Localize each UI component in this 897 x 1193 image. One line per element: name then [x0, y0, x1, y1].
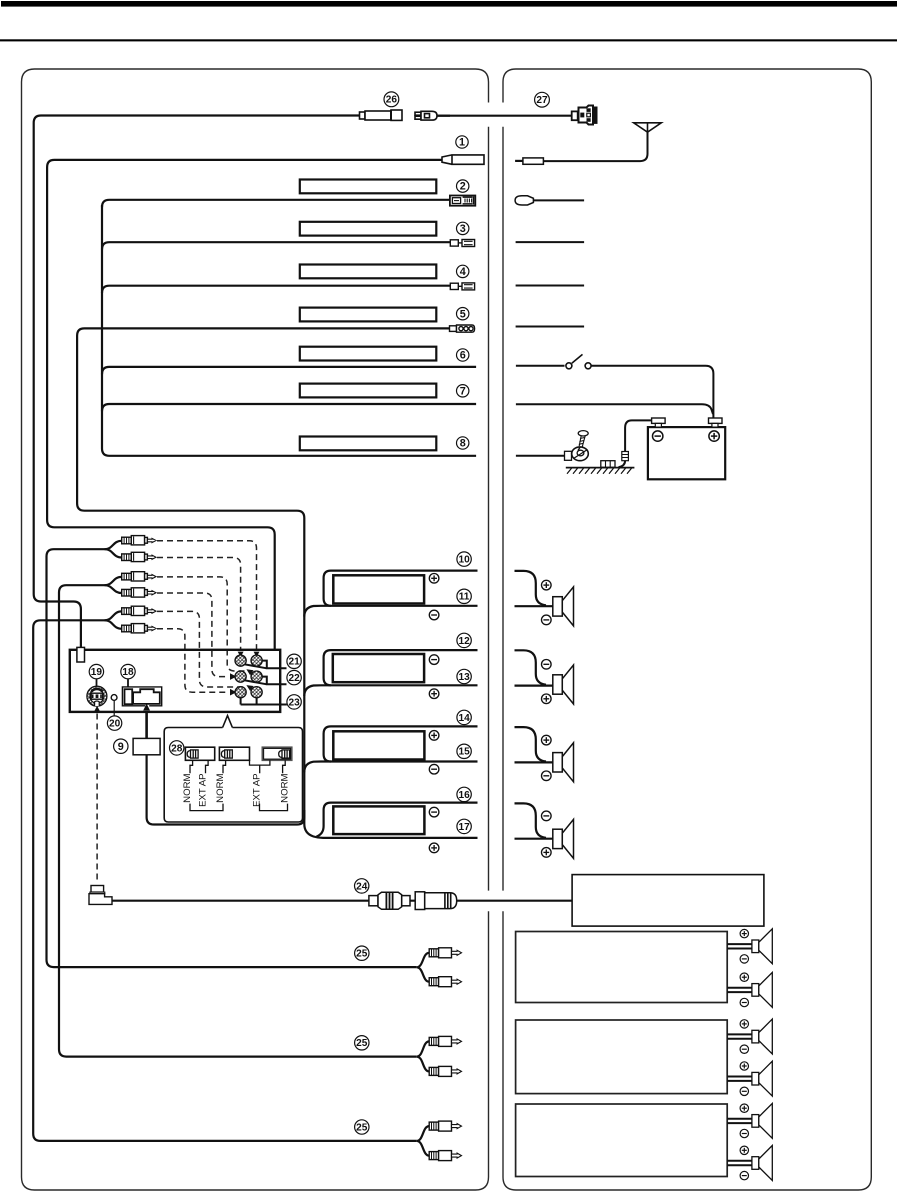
svg-text:23: 23	[288, 697, 300, 708]
amp speaker 5	[727, 1103, 772, 1138]
svg-text:17: 17	[458, 822, 470, 833]
label 21	[287, 654, 301, 668]
wire mate of 3	[516, 241, 585, 243]
unit (head unit rear) box	[70, 650, 280, 712]
wire RCA pair 1 to cable 25a	[47, 541, 417, 967]
svg-text:16: 16	[458, 790, 470, 801]
ground hatching	[567, 468, 632, 474]
right speaker 3 leads	[515, 727, 553, 762]
wire 7	[102, 404, 476, 411]
ignition switch wire 6 side	[516, 366, 714, 418]
arrow into jack R1	[254, 652, 260, 657]
circled label 2	[457, 180, 469, 192]
amp box 3	[516, 1104, 728, 1177]
switch knob B	[221, 750, 232, 758]
dashed route plug4 to jack L2	[157, 593, 229, 677]
svg-text:15: 15	[458, 747, 470, 758]
label box 10/11	[333, 575, 424, 603]
svg-text:25: 25	[356, 1038, 368, 1049]
header rule line	[0, 39, 897, 41]
label 11	[457, 589, 471, 603]
right speaker 2 leads	[515, 650, 553, 685]
box 24 target (CD changer)	[572, 875, 764, 927]
circled label 1	[456, 136, 468, 148]
battery plus symbol	[709, 431, 719, 441]
right speaker 2 symbol	[553, 665, 574, 704]
speaker pair 2 top wire (12)	[324, 650, 478, 685]
svg-text:NORM: NORM	[215, 773, 226, 802]
bracket jacks pair2 to label 22	[245, 677, 287, 685]
RCA plug 25c-top	[429, 1121, 461, 1131]
wire 8 to ground	[516, 455, 565, 457]
label 15	[457, 744, 471, 758]
speaker pair 4 bottom wire (17) from trunk U-turn	[323, 837, 478, 839]
dashed route plug1 to jack R1	[157, 541, 257, 651]
svg-text:6: 6	[460, 350, 466, 362]
plus sign wire 10	[429, 574, 439, 584]
right panel frame	[503, 69, 871, 1190]
small hole 20	[111, 695, 117, 701]
right speaker 3 symbol	[553, 743, 574, 782]
callout chevron	[223, 716, 233, 728]
right speaker 4 leads	[515, 803, 553, 838]
ground terminal block	[601, 461, 615, 468]
leader NORM A	[190, 760, 193, 773]
jack L1	[235, 655, 246, 666]
battery minus symbol	[653, 431, 663, 441]
DIN connector 19	[87, 686, 107, 706]
label 19	[89, 664, 103, 678]
minus sign wire 12	[429, 655, 439, 665]
label 18	[121, 664, 135, 678]
circled label 7	[457, 385, 469, 397]
svg-text:3: 3	[460, 223, 466, 235]
label 28	[170, 741, 184, 755]
connector 27	[572, 106, 598, 125]
label 20	[107, 716, 121, 730]
unit antenna input box (target of wire 26)	[77, 647, 85, 662]
connector 4	[450, 283, 474, 290]
amp speaker 1	[727, 929, 772, 964]
svg-text:EXT AP: EXT AP	[252, 774, 263, 807]
amp speaker 6	[727, 1146, 772, 1181]
bottom bracket NORM A-B	[190, 804, 223, 811]
amp speaker 4	[727, 1061, 772, 1096]
wire 26 to 27 crossing	[437, 115, 572, 117]
svg-text:25: 25	[356, 1122, 368, 1133]
RCA plug 2	[122, 552, 156, 561]
antenna symbol	[634, 123, 662, 132]
wire 3	[102, 242, 450, 249]
wire from box 9 up into socket 18	[145, 711, 148, 738]
wire 5 (speaker harness lead)	[77, 328, 449, 838]
RCA plug 25a-bottom	[429, 977, 461, 987]
svg-text:12: 12	[458, 636, 470, 647]
switch position texts	[182, 773, 290, 806]
label box 8	[300, 437, 437, 451]
svg-text:2: 2	[460, 181, 466, 193]
arrow into jack L3	[230, 689, 237, 696]
label 24	[355, 879, 369, 893]
label 10	[457, 552, 471, 566]
label 25a	[355, 946, 369, 960]
wire 1 (antenna plug lead)	[47, 160, 442, 650]
dashed route plug3 to jack R2	[157, 577, 245, 671]
label 16	[457, 787, 471, 801]
arrow from 19 down to plug of cable 24 (dashed)	[96, 714, 98, 881]
label 9	[114, 739, 128, 753]
wire 8 (bundle trunk)	[102, 205, 476, 456]
ignition switch contacts	[566, 363, 572, 369]
wire mate of 2	[533, 199, 584, 201]
label box 16/17	[333, 806, 424, 834]
bracket jacks pair3 to label 23	[241, 698, 287, 705]
label box 5	[300, 308, 437, 322]
RCA plug 5	[122, 606, 156, 615]
plus sign wire 17	[429, 843, 439, 853]
switch knob A	[187, 750, 198, 758]
label 13	[457, 669, 471, 683]
bracket jacks pair1 to label 21	[245, 661, 287, 669]
svg-text:NORM: NORM	[279, 773, 290, 802]
wire RCA pair 3 to cable 25c	[33, 611, 417, 1141]
label box 12/13	[333, 654, 424, 682]
right speaker 4 symbol	[553, 819, 574, 858]
label box 6	[300, 347, 437, 361]
arrow into jack L2	[230, 673, 237, 680]
circled label 3	[457, 222, 469, 234]
battery plus terminal cap	[709, 418, 723, 423]
socket 18	[122, 687, 161, 706]
plus sign wire 13	[429, 689, 439, 699]
wire 2	[102, 200, 450, 207]
sleeve on minus wire	[622, 452, 629, 461]
dashed route plug6 to jack L3	[157, 629, 229, 692]
mounting screw	[578, 431, 588, 436]
label box 3	[300, 222, 437, 236]
wire 7 to battery	[516, 404, 713, 414]
leader EXT AP shared B/C	[250, 760, 270, 773]
wire 25b cable with Y-split	[417, 1041, 430, 1071]
amp box 2	[516, 1020, 728, 1094]
wire 24	[112, 900, 572, 902]
arrow into jack L1	[238, 652, 244, 657]
svg-text:28: 28	[171, 743, 183, 754]
wire from box 9 down and right to harness trunk	[147, 755, 305, 825]
RCA plug 1	[122, 536, 156, 545]
connector 2	[450, 196, 475, 206]
left panel frame	[22, 69, 489, 1190]
svg-text:4: 4	[460, 266, 466, 278]
antenna mast and lead to socket	[543, 132, 647, 161]
circled label 6	[457, 349, 469, 361]
jack R3	[251, 687, 262, 698]
speaker pair 4 top wire (16)	[317, 803, 478, 837]
wire 6	[102, 367, 476, 374]
ring terminal	[572, 447, 589, 461]
leader NORM C	[283, 760, 286, 773]
svg-text:9: 9	[118, 741, 124, 753]
circled label 8	[457, 437, 469, 449]
right speaker 1 signs	[542, 580, 552, 590]
switch C	[262, 747, 292, 760]
battery body	[648, 427, 725, 479]
minus sign wire 16	[429, 807, 439, 817]
dashed route plug5 to jack R3	[157, 611, 245, 687]
wire 26 (antenna extension cord run)	[34, 116, 360, 649]
right speaker 4 signs	[542, 811, 552, 821]
switch A	[185, 747, 214, 760]
speaker pair 3 bottom wire (15) + S-join	[304, 762, 477, 773]
RCA plug 6	[122, 624, 156, 633]
svg-text:19: 19	[91, 667, 103, 678]
RCA plug 25a-top	[429, 948, 461, 958]
RCA plug 3	[122, 572, 156, 581]
label box 2	[300, 180, 437, 194]
svg-text:22: 22	[288, 673, 300, 684]
speaker pair 2 bottom wire (13) + S-join	[304, 685, 477, 696]
connector 26 female barrel	[360, 110, 403, 120]
box 9	[133, 738, 160, 754]
svg-text:7: 7	[460, 385, 466, 397]
wire 8 collar	[565, 451, 572, 460]
switch knob C	[279, 750, 290, 758]
connector 3	[450, 240, 474, 247]
connector 26 male plug	[415, 111, 450, 120]
connector 24 male barrel	[369, 892, 410, 909]
RCA plug 25b-top	[429, 1036, 461, 1046]
terminal mate of 2	[515, 196, 533, 205]
wire mate of 5	[516, 326, 585, 328]
label 23	[287, 695, 301, 709]
right speaker 2 signs	[542, 660, 552, 670]
svg-text:8: 8	[460, 438, 466, 450]
circled label 26	[384, 92, 399, 107]
svg-text:24: 24	[356, 881, 368, 892]
svg-text:5: 5	[460, 308, 466, 320]
label 12	[457, 633, 471, 647]
label 22	[287, 670, 301, 684]
label box 4	[300, 265, 437, 279]
jack L3	[235, 687, 246, 698]
amp speaker 3	[727, 1019, 772, 1054]
label 14	[457, 710, 471, 724]
antenna socket pigtail (mate of 1)	[515, 158, 543, 164]
bottom bracket EXTAP-NORM C	[260, 804, 288, 811]
svg-text:14: 14	[458, 713, 470, 724]
svg-text:26: 26	[386, 95, 398, 106]
wire mate of 4	[516, 285, 585, 287]
leader EXT AP A	[206, 760, 209, 773]
wire 25c cable with Y-split	[417, 1126, 430, 1156]
svg-text:10: 10	[458, 555, 470, 566]
speaker pair 1 bottom wire (11) + S-join	[304, 606, 477, 617]
connector 1 antenna plug	[442, 155, 484, 164]
RCA plug 25b-bottom	[429, 1066, 461, 1076]
svg-text:11: 11	[459, 592, 470, 603]
box 28 (rear switches)	[164, 728, 302, 823]
circled label 4	[457, 265, 469, 277]
circled label 5	[457, 308, 469, 320]
svg-text:27: 27	[536, 95, 548, 106]
amp box 1	[516, 932, 728, 1003]
jack R2	[251, 671, 262, 682]
label 25c	[355, 1120, 369, 1134]
wire 4	[102, 286, 450, 293]
battery minus ground wire	[619, 420, 652, 467]
arrow into jack R2	[246, 669, 253, 675]
RCA plug 25c-bottom	[429, 1151, 461, 1161]
battery minus terminal cap	[652, 418, 666, 423]
wire 25a cable with Y-split	[417, 953, 430, 982]
jack L2	[235, 671, 246, 682]
arrow into jack R3	[246, 685, 253, 691]
label box 14/15	[333, 731, 424, 759]
jack R1	[251, 655, 262, 666]
dashed route plug2 to jack L1	[157, 558, 241, 652]
label box 7	[300, 384, 437, 398]
ground line	[566, 467, 635, 469]
label 25b	[355, 1036, 369, 1050]
right speaker 1 symbol	[553, 587, 574, 626]
connector 5	[450, 325, 475, 332]
switch B	[219, 747, 249, 760]
leader NORM B	[223, 760, 226, 773]
amp speaker 2	[727, 972, 772, 1007]
header black bar	[1, 1, 897, 7]
minus sign wire 15	[429, 764, 439, 774]
wire RCA pair 2 to cable 25b	[59, 577, 417, 1057]
speaker pair 3 top wire (14)	[324, 726, 478, 761]
label 27	[535, 92, 550, 107]
right speaker 1 leads	[515, 571, 553, 606]
svg-text:21: 21	[288, 657, 300, 668]
right speaker 3 signs	[542, 735, 552, 745]
RCA plug 4	[122, 588, 156, 597]
plus sign wire 14	[429, 731, 439, 741]
svg-text:1: 1	[459, 137, 465, 149]
svg-text:NORM: NORM	[182, 773, 193, 802]
svg-text:13: 13	[458, 672, 470, 683]
minus sign wire 11	[429, 610, 439, 620]
connector 24 female barrel	[415, 892, 457, 910]
label 17	[457, 819, 471, 833]
right-angle plug of cable 24	[89, 886, 112, 905]
svg-text:18: 18	[122, 667, 134, 678]
svg-text:20: 20	[109, 719, 121, 730]
svg-text:EXT AP: EXT AP	[198, 774, 209, 807]
svg-text:25: 25	[356, 949, 368, 960]
speaker pair 1 top wire (10)	[324, 571, 478, 606]
